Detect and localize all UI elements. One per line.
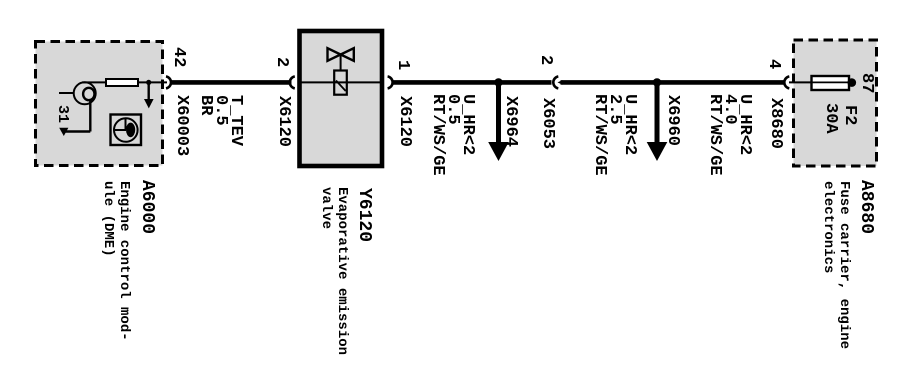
junction node X6964	[494, 78, 502, 86]
pin 42 label	[171, 47, 186, 67]
designator A8680	[858, 180, 873, 234]
wire inside module to resistor	[82, 81, 107, 83]
fuse element line	[812, 81, 849, 83]
connector pin 42 socket	[166, 76, 171, 88]
designator A6000	[139, 180, 154, 234]
evaporative emission valve Y6120 box	[300, 31, 383, 166]
description Fuse carrier, engine electronics	[820, 181, 852, 349]
wire T_TEV 0.5 BR	[171, 80, 292, 85]
connector label X6120 (pin 1)	[397, 96, 412, 147]
fuse carrier A8680 dashed box	[794, 40, 877, 166]
branch arrow X6964	[488, 82, 509, 161]
junction dot inside module	[146, 80, 151, 85]
connector X8680 socket	[784, 76, 789, 88]
connector label X60003	[174, 95, 189, 156]
valve bowtie symbol	[328, 48, 354, 61]
wire through valve box	[301, 81, 381, 83]
ground lead to terminal 31	[63, 100, 90, 132]
coil diagonal	[336, 81, 346, 92]
connector X6120 pin 1 socket	[388, 76, 393, 88]
pin 2 label (X6053)	[538, 55, 553, 65]
fuse end cap	[848, 78, 857, 87]
wire label U_HR&lt;2 0.5 RT/WS/GE	[430, 94, 475, 176]
connector X6053 socket	[553, 76, 558, 88]
node label X6964	[503, 96, 518, 147]
ground arrow terminal 31	[59, 128, 68, 136]
designator Y6120	[356, 188, 371, 242]
pin 2 label	[274, 57, 289, 67]
pin 4 label	[766, 59, 781, 69]
wire U_HR&lt;2 0.5 RT/WS/GE	[392, 80, 552, 85]
electronic control unit symbol (square with circle)	[111, 115, 142, 146]
node label X6960	[665, 95, 680, 146]
terminal 31 label	[55, 105, 70, 123]
fuse designator F2	[842, 105, 857, 125]
internal arrow down	[144, 82, 154, 108]
wire label U_HR&lt;2 2.5 RT/WS/GE	[592, 94, 637, 176]
fuse F2 body	[812, 76, 850, 90]
connector label X6120 (pin 2)	[276, 96, 291, 147]
fuse rating 30A	[823, 103, 838, 134]
solenoid coil rect	[334, 71, 347, 95]
wire into fuse	[789, 81, 812, 83]
connector label X6053	[540, 98, 555, 149]
engine control module A6000 dashed box	[36, 42, 163, 166]
description Engine control module (DME)	[100, 181, 132, 341]
connector X6053 male pin	[558, 80, 563, 85]
resistor	[106, 79, 138, 86]
transistor output stage (circle)	[59, 82, 96, 104]
connector label X8680	[768, 98, 783, 149]
pin 1 label	[395, 60, 410, 70]
connector X6120 pin 2 socket	[290, 76, 295, 88]
fuse pin 87 label	[859, 73, 874, 93]
wire U_HR&lt;2 2.5 RT/WS/GE	[561, 80, 785, 85]
valve stem	[340, 55, 342, 72]
junction node X6960	[653, 78, 661, 86]
wire label U_HR&lt;2 4.0 RT/WS/GE	[707, 94, 752, 176]
wire from resistor to pin 42	[138, 81, 167, 83]
wire label T_TEV 0.5 BR	[198, 95, 243, 146]
description Evaporative emission valve	[318, 187, 350, 355]
branch arrow X6960	[647, 82, 668, 161]
